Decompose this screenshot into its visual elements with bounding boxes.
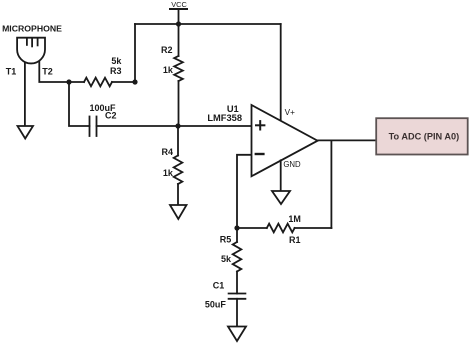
svg-text:1k: 1k	[163, 65, 174, 75]
wire to op-amp plus input	[97, 125, 252, 127]
resistor R2 1k	[161, 24, 183, 126]
svg-text:R3: R3	[110, 66, 122, 76]
capacitor C2 100uF	[69, 82, 117, 136]
wire op-amp output	[318, 139, 377, 141]
wire rail left drop	[134, 24, 136, 82]
resistor R1 1M	[237, 214, 331, 245]
svg-text:1k: 1k	[163, 168, 174, 178]
junction dot T2 node	[66, 79, 71, 84]
microphone MIC1 leads	[25, 59, 69, 126]
svg-text:5k: 5k	[221, 254, 232, 264]
plus sign	[256, 121, 264, 129]
svg-text:V+: V+	[285, 108, 295, 117]
svg-text:LMF358: LMF358	[207, 113, 242, 123]
wire op-amp gnd stem	[280, 160, 282, 191]
junction node at R3 right	[132, 79, 137, 84]
svg-text:50uF: 50uF	[205, 300, 227, 310]
ground under C1	[228, 327, 246, 342]
svg-text:1M: 1M	[288, 214, 301, 224]
microphone MIC1 body	[17, 38, 45, 64]
capacitor C1 50uF	[205, 281, 246, 327]
wire minus input feedback drop	[237, 155, 252, 228]
svg-text:R1: R1	[289, 235, 301, 245]
junction dot plus node	[175, 123, 180, 128]
ground under op-amp	[272, 191, 290, 204]
svg-text:MICROPHONE: MICROPHONE	[2, 24, 62, 34]
svg-text:C2: C2	[105, 111, 117, 121]
ADC output box	[376, 118, 468, 154]
op-amp U1 LMF358	[207, 104, 317, 176]
wire C2 branch	[69, 82, 90, 126]
ground under T1	[18, 126, 34, 139]
junction dot feedback node	[234, 225, 239, 230]
ground under R4	[170, 205, 187, 219]
svg-text:T2: T2	[42, 67, 53, 77]
wire V+ stem	[280, 24, 282, 122]
power flag VCC	[170, 0, 187, 24]
wire output drop to feedback	[330, 140, 332, 228]
svg-text:GND: GND	[283, 160, 301, 169]
svg-text:To ADC (PIN A0): To ADC (PIN A0)	[389, 131, 460, 141]
svg-text:R4: R4	[162, 147, 174, 157]
resistor R4 1k	[162, 126, 183, 205]
svg-text:VCC: VCC	[171, 0, 187, 9]
svg-text:R5: R5	[220, 235, 232, 245]
resistor R5 5k	[220, 228, 242, 294]
svg-text:T1: T1	[6, 67, 17, 77]
svg-text:5k: 5k	[111, 56, 122, 66]
wire T1 lead	[24, 60, 26, 126]
minus sign	[256, 153, 264, 155]
svg-text:R2: R2	[161, 45, 173, 55]
svg-text:C1: C1	[213, 281, 225, 291]
wire top rail	[135, 23, 281, 25]
resistor R3 5k	[69, 56, 135, 86]
wire T2 lead	[39, 59, 69, 82]
junction dot at VCC rail	[176, 21, 181, 26]
